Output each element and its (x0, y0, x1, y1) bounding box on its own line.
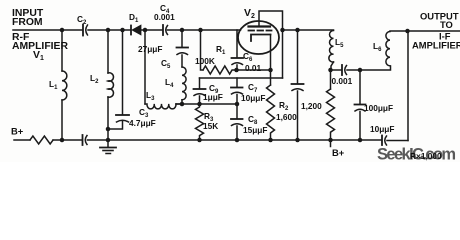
capacitor 10uuF series (382, 136, 387, 146)
label C5 value (138, 44, 171, 70)
wire: C7 column from plate rail (236, 78, 238, 87)
svg-text:AMPLIFIER: AMPLIFIER (412, 40, 460, 51)
diode D1 (131, 25, 141, 35)
node label OUTPUT TO I-F AMPLIFIER (412, 11, 460, 51)
wire: B+ lead left (14, 139, 30, 141)
svg-text:10μμF: 10μμF (241, 93, 265, 103)
svg-text:1μμF: 1μμF (203, 92, 223, 102)
wire: cathode to R2 (270, 70, 272, 85)
capacitor C6 (232, 58, 244, 65)
wire: C9 to tank rail (199, 96, 201, 104)
wire: L1 column (61, 30, 63, 71)
svg-text:1,600: 1,600 (276, 112, 297, 122)
resistor R2 (267, 85, 275, 140)
tube V2 plate (249, 25, 271, 27)
wire: bottom rail right end (387, 140, 408, 142)
wire: B+ stub (330, 140, 332, 147)
wire: output rail (390, 30, 460, 32)
inductor L6 (386, 32, 390, 66)
wire: plate lead to plate rail (259, 11, 283, 78)
wire: node to coupling cap (331, 69, 342, 71)
capacitor C7 (231, 88, 243, 95)
svg-text:0.001: 0.001 (332, 76, 353, 86)
wire: L1 to B+ rail (61, 100, 63, 140)
wire: L2 to ground rail (107, 97, 109, 140)
svg-text:TO: TO (440, 19, 453, 30)
resistor B+ feed (30, 136, 53, 144)
label C8 value (243, 114, 267, 135)
capacitor C9 (194, 89, 206, 96)
capacitor C2 (82, 25, 84, 36)
resistor R1 (203, 66, 237, 74)
capacitor 100uuF (355, 105, 366, 112)
wire: L4 to tank rail (181, 100, 183, 104)
wire: cathode lead (270, 35, 272, 71)
wire: plate bypass rail y78 (200, 77, 283, 79)
inductor L3 (145, 104, 176, 109)
wire: C7 to tank rail (236, 95, 238, 105)
label C7 value (241, 82, 265, 103)
wire: C6 grid capacitor column (236, 30, 238, 58)
wire: C3 column from top rail (122, 30, 124, 115)
wire: L5 node to dropping resistor (330, 70, 332, 89)
resistor 1200 (327, 89, 335, 140)
svg-text:B+: B+ (11, 126, 24, 137)
svg-text:27μμF: 27μμF (138, 44, 162, 54)
capacitor C9 top corner from plate rail (199, 78, 201, 89)
wire: C8 column (236, 104, 238, 119)
wire: tank rail y104 (176, 103, 237, 105)
tube V2 envelope (238, 21, 279, 54)
wire: IF bypass column (359, 70, 361, 104)
label C4 value (154, 3, 175, 22)
wire: C5/L4 column from top rail (181, 30, 183, 47)
svg-text:100μμF: 100μμF (364, 103, 393, 113)
tube V2 cathode (251, 35, 271, 42)
wire: bottom ground rail (88, 139, 382, 141)
svg-text:R×1,000: R×1,000 (410, 151, 442, 161)
svg-text:4.7μμF: 4.7μμF (129, 118, 156, 128)
wire: L5 bottom to node (331, 62, 334, 70)
svg-text:1,200: 1,200 (301, 101, 322, 111)
wire: C5 to L4 (181, 55, 183, 67)
wire: grid leak feed from top rail (201, 30, 204, 70)
wire: C8 to bottom rail (236, 126, 238, 140)
resistor R3 (196, 104, 204, 140)
wire: 100uuF to bottom rail (359, 112, 361, 141)
wire: L3 to L4 junction (176, 103, 182, 105)
wire: B+ rail segment (53, 139, 82, 141)
label C3 value (129, 107, 156, 128)
svg-text:15K: 15K (203, 121, 218, 131)
label R2 value (276, 100, 297, 122)
node label INPUT FROM R-F AMPLIFIER V1 (12, 8, 68, 62)
ground (100, 140, 116, 154)
wire: L3 column from top rail (144, 30, 146, 104)
svg-text:B+: B+ (332, 147, 345, 158)
label R1 value (195, 44, 226, 66)
svg-text:0.001: 0.001 (154, 12, 175, 22)
wire: bypass cap to bottom rail (297, 91, 299, 140)
svg-text:AMPLIFIER: AMPLIFIER (12, 41, 68, 52)
wire: screen bypass column (297, 30, 299, 84)
capacitor 0.001 coupling (342, 65, 347, 75)
wire: top grid rail from input to tube (13, 29, 82, 31)
wire: C3 elbow to L2 column (108, 121, 123, 129)
wire: coupling cap to L6 bottom (347, 66, 391, 70)
svg-text:10μμF: 10μμF (370, 124, 394, 134)
label C9 value (203, 83, 223, 102)
inductor L4 (182, 67, 186, 100)
inductor L5 (329, 31, 334, 63)
wire: C6 to cathode node (236, 65, 238, 70)
label R3 value (203, 111, 218, 131)
tube V2 grid dashes (249, 30, 272, 32)
svg-text:0.01: 0.01 (245, 63, 262, 73)
capacitor C4 (163, 25, 168, 35)
svg-text:15μμF: 15μμF (243, 125, 267, 135)
inductor L2 (108, 73, 113, 97)
capacitor C3 (116, 115, 129, 122)
wire: cathode node wire (237, 69, 271, 71)
capacitor series bottom (83, 135, 88, 145)
capacitor C8 (231, 119, 243, 126)
capacitor C5 (177, 48, 189, 55)
svg-text:100K: 100K (195, 56, 215, 66)
inductor L1 (62, 71, 67, 100)
wire: plate top rail to L5 (283, 29, 334, 31)
capacitor (screen bypass) (292, 84, 304, 91)
wire: output return vertical (407, 31, 409, 141)
label C6 value (243, 51, 262, 73)
svg-text:FROM: FROM (12, 17, 43, 28)
wire: L2 column (107, 30, 109, 73)
